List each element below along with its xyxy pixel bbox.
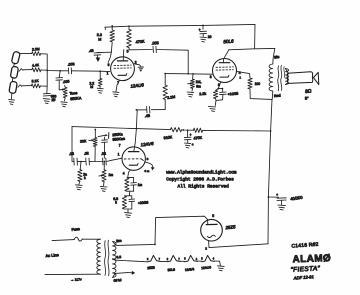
label 470K <box>135 39 145 44</box>
RC2 ties <box>124 196 132 209</box>
ground (input jacks) <box>9 100 15 105</box>
label 250KA <box>112 132 123 137</box>
pin f label <box>239 76 241 80</box>
svg-text:.45: .45 <box>144 114 150 119</box>
pin 4 label V3 <box>123 171 125 175</box>
wire heater string 4 <box>197 260 201 262</box>
tone pot wiper arrow <box>59 88 64 90</box>
label 1m RC1 <box>138 183 143 187</box>
label 6.8 <box>113 197 118 205</box>
wire top rail B+ <box>105 24 255 27</box>
svg-text:.02: .02 <box>101 152 106 156</box>
svg-text:20: 20 <box>208 35 212 39</box>
svg-text:850KA: 850KA <box>70 96 82 101</box>
svg-text:μμ: μμ <box>52 98 56 102</box>
label 20K <box>80 139 87 143</box>
resistor R 2.2M (input 1) <box>32 52 41 56</box>
resistor RC2 <box>122 196 126 209</box>
ground (V2 cathode) <box>208 100 216 111</box>
wire rail corner down <box>72 127 73 162</box>
pin 1 label V3 <box>118 153 120 157</box>
label 1M <box>196 80 202 84</box>
svg-text:1: 1 <box>107 72 109 76</box>
label 40/200 <box>290 195 304 202</box>
wire row b-c <box>89 161 102 163</box>
svg-text:8m: 8m <box>196 85 201 89</box>
junction <box>164 73 166 75</box>
wire rail left tick <box>104 27 106 29</box>
tube V2 50L6 <box>213 59 237 83</box>
capacitor .05 fb <box>147 107 150 113</box>
ground (20 cap) <box>200 34 206 42</box>
label 850KA <box>70 96 82 101</box>
ground (grid leak) <box>97 86 103 93</box>
label 22K <box>83 172 87 180</box>
label .005 coupling <box>151 41 158 45</box>
svg-text:5: 5 <box>127 50 129 54</box>
capacitor 680uuF <box>43 93 50 96</box>
svg-text:+10/25: +10/25 <box>227 92 238 97</box>
capacitor RC1 <box>131 178 137 192</box>
wire screen bypass tap <box>97 51 111 53</box>
svg-text:1M,: 1M, <box>196 80 202 84</box>
pin 7 label <box>117 81 119 85</box>
V1 plate lead <box>122 50 125 61</box>
svg-text:1: 1 <box>239 76 241 80</box>
junction <box>268 196 270 198</box>
svg-text:2.2k: 2.2k <box>199 92 206 96</box>
wire RC1-RC2 <box>128 191 130 195</box>
svg-text:+20/25: +20/25 <box>138 200 149 205</box>
svg-text:→ 117v: → 117v <box>70 277 82 282</box>
junction <box>99 70 101 72</box>
V2 right lead <box>236 71 250 78</box>
label 50L6 <box>223 38 234 44</box>
junction <box>222 88 224 90</box>
svg-text:4: 4 <box>196 258 198 261</box>
capacitor 40/200 <box>276 193 286 204</box>
wire input bus <box>46 54 48 93</box>
junction <box>202 25 204 27</box>
resistor R 4.4K (input 2) <box>32 68 41 72</box>
svg-text:Fuse: Fuse <box>71 227 80 232</box>
label 20/25 <box>138 200 149 205</box>
svg-text:4: 4 <box>123 171 125 175</box>
svg-text:2: 2 <box>167 258 169 261</box>
wire OT return to B+ rail <box>271 99 272 131</box>
svg-text:Copyright 2006 A.D.Forbes: Copyright 2006 A.D.Forbes <box>166 177 234 183</box>
svg-text:Red: Red <box>274 94 281 99</box>
label 12AU6 heater <box>201 265 211 270</box>
resistor 2.2M feedback <box>163 74 167 110</box>
wire heater string end <box>214 261 220 265</box>
label 6.3 tap <box>116 255 121 259</box>
svg-text:5.1K: 5.1K <box>32 79 40 84</box>
svg-text:4: 4 <box>192 142 194 146</box>
label 12AV6 <box>140 141 154 147</box>
capacitor .05 screen <box>94 53 101 56</box>
20K wiper arrow <box>89 139 94 141</box>
wire heater string 2 <box>160 260 167 262</box>
capacitor wiper <box>102 137 108 158</box>
wire OT primary bottom <box>271 91 274 99</box>
pin 6 label <box>108 63 110 67</box>
ground (1M pot) <box>187 88 194 97</box>
svg-text:Ac Line: Ac Line <box>45 252 59 258</box>
jack3 contact mark <box>18 85 22 87</box>
svg-text:12AV6: 12AV6 <box>185 267 195 272</box>
ground (heater string) <box>217 266 224 271</box>
capacitor C .005 (series) <box>68 68 71 74</box>
svg-text:470K: 470K <box>135 39 145 44</box>
wire jack2 to R2 <box>23 69 32 71</box>
output transformer primary <box>269 64 273 91</box>
tube V3 12AV6 <box>122 147 145 170</box>
capacitor tone .005 <box>56 78 63 81</box>
wire plate to C2 <box>129 49 152 51</box>
wire to tone pot <box>58 80 60 90</box>
potentiometer 20K <box>93 129 97 161</box>
potentiometer 1M row <box>102 162 106 182</box>
svg-text:850Kaa: 850Kaa <box>112 137 125 142</box>
wire bus to C1 <box>47 70 68 72</box>
wire row a-b <box>77 161 85 163</box>
svg-text:12AV6: 12AV6 <box>140 141 154 147</box>
heater 12AV6 <box>184 255 198 261</box>
ground (V3 cathode) <box>125 209 132 218</box>
ground (tone pot) <box>61 102 67 107</box>
svg-text:2.2M: 2.2M <box>32 47 40 52</box>
svg-text:25Z5: 25Z5 <box>224 224 236 230</box>
wire screen to tube <box>108 52 111 63</box>
label GRN/YEL <box>113 278 122 283</box>
junction <box>80 161 82 163</box>
jack2 contact mark <box>19 69 23 72</box>
ground (rail filter cap) <box>184 140 193 148</box>
wire secondary bottom tap <box>113 273 128 278</box>
speaker cone <box>313 72 318 84</box>
wire heater string 1 <box>143 261 148 263</box>
svg-text:1: 1 <box>118 153 120 157</box>
svg-text:6: 6 <box>108 63 110 67</box>
label Red <box>274 94 281 99</box>
label 470K rail <box>193 136 203 141</box>
pin 7 label V3 <box>119 144 121 148</box>
T1 core scribble <box>105 240 109 276</box>
svg-text:.02: .02 <box>69 152 74 156</box>
capacitor 10/25 cathode <box>216 89 226 101</box>
capacitor .02 b <box>84 151 90 165</box>
wire row to V3 grid <box>106 158 122 161</box>
OT core scribble <box>278 65 285 90</box>
svg-text:+: + <box>276 193 278 197</box>
label 4.4K <box>32 63 40 68</box>
svg-text:5: 5 <box>212 214 214 218</box>
svg-text:910K: 910K <box>163 135 173 140</box>
junction <box>136 128 138 130</box>
svg-text:3: 3 <box>210 75 212 79</box>
heater 25Z5 <box>147 255 161 261</box>
label 25Z5 heater <box>147 266 155 271</box>
svg-text:.005: .005 <box>151 41 158 45</box>
wire AC hot <box>52 240 74 241</box>
V2 cathode lead <box>218 82 222 88</box>
svg-text:.005: .005 <box>67 62 74 67</box>
fuse <box>74 237 82 241</box>
svg-text:40/200: 40/200 <box>290 195 304 202</box>
resistor 2.2M grid leak <box>98 71 102 86</box>
capacitor RC2 <box>129 196 135 209</box>
label +10/25 <box>227 92 238 97</box>
wire C2 to corner <box>157 50 188 74</box>
svg-text:4: 4 <box>213 258 215 261</box>
svg-text:k: k <box>115 201 117 205</box>
wire fb cap right <box>151 109 165 111</box>
capacitor 20 bypass on rail <box>199 25 207 33</box>
V2 plate lead <box>224 50 229 63</box>
wire secondary mid tap <box>113 259 143 262</box>
potentiometer TONE 850KA <box>63 85 67 100</box>
svg-text:M: M <box>98 37 101 41</box>
V3 right ground arrow <box>144 162 154 173</box>
wire heater string 3 <box>180 260 185 262</box>
V3 cathode lead <box>128 170 131 178</box>
V4 cathode lead <box>205 241 268 251</box>
svg-text:+: + <box>190 133 192 137</box>
label TONE <box>69 91 77 96</box>
heater 12AU6 <box>201 255 215 261</box>
junction <box>187 129 189 131</box>
svg-text:25Z5: 25Z5 <box>147 266 155 271</box>
chassis arrow (secondary) <box>128 271 135 275</box>
text C1416 REV2 <box>291 242 318 250</box>
svg-text:7: 7 <box>159 258 161 261</box>
jack sleeve chain wire <box>12 63 15 99</box>
svg-text:12AU6: 12AU6 <box>130 82 144 88</box>
capacitor .02 a <box>69 152 78 165</box>
svg-text:Brn: Brn <box>116 239 122 244</box>
resistor 470K plate <box>127 26 132 50</box>
svg-text:www.AlphaSoundandLight.com: www.AlphaSoundandLight.com <box>166 169 237 175</box>
svg-text:Blu: Blu <box>274 55 280 60</box>
svg-text:“FIESTA”: “FIESTA” <box>291 265 321 274</box>
text Copyright 2006 A.D.Forbes <box>166 177 234 183</box>
svg-text:.005: .005 <box>62 79 69 84</box>
wiper link bar <box>98 133 109 139</box>
wire R1 to bus <box>41 53 48 55</box>
wire jack1 to R1 <box>19 52 31 54</box>
junction <box>136 109 138 111</box>
label 100 <box>255 82 261 86</box>
pin 2 label <box>135 60 137 64</box>
label SP <box>305 95 310 100</box>
tube V1 12AU6 <box>111 57 135 81</box>
svg-text:.02: .02 <box>84 151 89 155</box>
junction <box>103 161 105 163</box>
junction <box>128 25 130 27</box>
svg-text:C1416 R#2: C1416 R#2 <box>291 242 318 250</box>
label .05 screen <box>88 49 93 53</box>
label 8 ohm <box>305 88 312 95</box>
resistor RC1 <box>125 178 129 191</box>
svg-text:ADF 12-91: ADF 12-91 <box>293 274 314 280</box>
svg-text:12AU6: 12AU6 <box>201 265 211 270</box>
svg-text:ALAMØ: ALAMØ <box>292 253 331 265</box>
svg-text:8: 8 <box>147 157 149 161</box>
label 2.2M <box>32 47 40 52</box>
svg-text:4 m: 4 m <box>144 169 150 173</box>
junction <box>187 73 189 75</box>
ground (1M row) <box>100 182 107 192</box>
svg-text:8Ω: 8Ω <box>305 88 312 95</box>
junction <box>111 25 113 27</box>
label .005 <box>67 62 74 67</box>
label 910K <box>163 135 173 140</box>
svg-text:3: 3 <box>184 258 186 261</box>
label 12AV6 heater <box>185 267 195 272</box>
capacitor C .005 coupling <box>153 46 156 52</box>
resistor 100 (V2 right) <box>248 78 252 89</box>
label .45 fb <box>144 114 150 119</box>
RC1 ties <box>126 177 133 191</box>
label FUSE <box>71 227 80 232</box>
resistor 22K row <box>78 162 82 182</box>
wire R2 to bus <box>41 69 47 71</box>
input jack J3 <box>9 81 18 94</box>
label 2.2 M <box>89 81 94 89</box>
pin 5 label <box>127 50 129 54</box>
junction <box>183 129 185 131</box>
1M wiper arrow <box>188 82 193 84</box>
text FIESTA <box>291 265 321 274</box>
resistor 910K rail <box>170 128 181 132</box>
label 12AU6 <box>130 82 144 88</box>
text ADF 12-91 <box>293 274 314 280</box>
svg-text:M: M <box>90 85 93 89</box>
pin 8 label <box>218 83 220 87</box>
junction <box>154 244 156 246</box>
ground arrow (screen cap) <box>96 55 101 62</box>
wire secondary to speaker <box>285 69 287 85</box>
ground (22K) <box>76 181 83 189</box>
svg-text:2: 2 <box>205 246 207 250</box>
pin 2 label V3 <box>147 157 149 161</box>
svg-text:6.3: 6.3 <box>116 255 121 259</box>
resistor 2.2M screen <box>110 26 114 52</box>
label 20 <box>208 35 212 39</box>
wire HV to rectifier <box>117 216 208 245</box>
svg-text:G/Yel: G/Yel <box>113 278 122 283</box>
resistor 470K rail <box>193 128 202 132</box>
output transformer secondary <box>285 69 288 85</box>
heater 50L6 <box>167 255 181 261</box>
svg-text:7: 7 <box>119 144 121 148</box>
V1 cathode lead + ground <box>113 80 120 96</box>
label 2.2k <box>199 92 206 96</box>
pin 1 label <box>107 72 109 76</box>
V1 pin2 ground arrow <box>134 64 143 72</box>
label 5.1K <box>32 79 40 84</box>
junction <box>59 70 61 72</box>
label 50L6 heater <box>168 268 176 273</box>
speaker body <box>287 72 313 84</box>
svg-text:All Rights Reserved: All Rights Reserved <box>178 184 230 190</box>
svg-text:8°: 8° <box>305 95 310 100</box>
input jack J1 <box>11 51 20 64</box>
svg-text:50L6: 50L6 <box>223 38 234 44</box>
junction <box>94 129 96 131</box>
label 680uu <box>51 94 57 101</box>
ground (40/200) <box>278 205 286 210</box>
resistor 2.2k cathode <box>213 89 218 101</box>
svg-text:Tone: Tone <box>69 91 77 96</box>
wire V3 plate lead <box>134 129 137 152</box>
capacitor filter on rail <box>184 130 191 140</box>
wire secondary top tap <box>113 241 117 245</box>
svg-text:1m: 1m <box>138 183 143 187</box>
wire AC neutral <box>45 273 100 275</box>
label Blu <box>274 55 280 60</box>
svg-text:7: 7 <box>178 258 180 261</box>
ground (680 cap) <box>43 99 50 104</box>
input jack J2 <box>10 66 18 78</box>
svg-text:k: k <box>84 176 86 180</box>
wire R3 to bus <box>40 85 47 87</box>
wire B+ corner down <box>254 24 256 48</box>
svg-text:4.4K: 4.4K <box>32 63 40 68</box>
label BRN <box>116 239 122 244</box>
label 1M row <box>108 173 113 177</box>
svg-text:+: + <box>199 28 201 32</box>
wire C1 to V1 grid <box>72 70 110 73</box>
junction <box>270 130 272 132</box>
svg-text:.45: .45 <box>88 49 93 53</box>
tube V4 25Z5 <box>201 219 223 241</box>
wire jack3 to R3 <box>22 85 32 87</box>
junction <box>46 70 48 72</box>
potentiometer 1M volume <box>191 74 195 89</box>
transformer T1 primary <box>97 239 101 274</box>
pin 3 label <box>210 75 212 79</box>
label AC LINE <box>45 252 59 258</box>
label 8m <box>196 85 201 89</box>
text www.AlphaSoundandLight.com <box>166 169 237 175</box>
svg-text:1m: 1m <box>108 173 113 177</box>
wire filter tap <box>268 196 278 198</box>
svg-text:20K: 20K <box>80 139 87 143</box>
svg-text:3: 3 <box>201 257 203 260</box>
label 850KAA <box>112 137 125 142</box>
transformer T1 secondary <box>113 241 116 277</box>
wire fb cap left <box>136 110 146 129</box>
capacitor .02 c <box>101 152 106 165</box>
svg-text:50L6: 50L6 <box>168 268 176 273</box>
label 25Z5 <box>224 224 236 230</box>
1M row wiper arrow <box>99 174 104 176</box>
wire screen horizontal <box>229 48 275 49</box>
svg-text:100: 100 <box>255 82 261 86</box>
label 2.2 M screen <box>97 33 102 41</box>
pin 5 label V4 <box>212 214 214 218</box>
svg-text:2.2M: 2.2M <box>167 95 175 100</box>
wire fuse to primary <box>82 238 100 240</box>
junction <box>217 88 219 90</box>
wire B+ vertical right <box>268 131 271 244</box>
wire 100 to OT return <box>250 89 272 99</box>
resistor R 5.1K (input 3) <box>31 84 40 88</box>
pin 4 label <box>239 71 241 75</box>
wire grid line 50L6 <box>165 73 212 76</box>
